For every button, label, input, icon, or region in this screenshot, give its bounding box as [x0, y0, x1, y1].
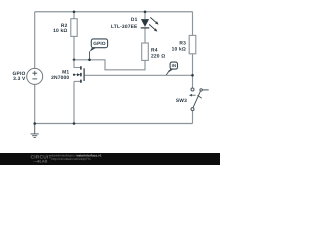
- emission arrow 1: [150, 17, 156, 22]
- footer watermark bar: [0, 153, 220, 165]
- junction R2 top rail: [73, 10, 76, 13]
- svg-text:D1: D1: [131, 17, 138, 23]
- voltage source V1 GPIO 3.3 V: [13, 68, 43, 84]
- body lead: [74, 74, 78, 76]
- body-source junction: [73, 74, 75, 76]
- emission arrow 2: [149, 24, 155, 29]
- svg-text:—■LAB: —■LAB: [34, 160, 48, 164]
- throw B terminal: [200, 89, 202, 91]
- terminal bottom: [191, 108, 194, 111]
- wire R3 top lead: [192, 12, 194, 36]
- junction IN node / R3 / SW3: [191, 74, 194, 77]
- wire R3 bottom lead: [192, 54, 194, 76]
- svg-text:M1: M1: [62, 70, 69, 76]
- wire R2 top lead: [73, 12, 75, 19]
- junction V1/ground/rail: [33, 122, 36, 125]
- node GPIO flag: [88, 39, 107, 61]
- svg-text:R4: R4: [151, 48, 158, 54]
- wire left rail: [34, 12, 36, 69]
- drain lead: [74, 60, 80, 68]
- wire IN node to SW3 top: [192, 75, 194, 88]
- switch SW3: [176, 88, 209, 111]
- wire D1 cathode to R4: [144, 28, 146, 43]
- svg-text:2N7000: 2N7000: [51, 75, 69, 81]
- svg-text:220 Ω: 220 Ω: [151, 53, 165, 59]
- svg-text:R3: R3: [179, 40, 186, 46]
- svg-text:GPIO: GPIO: [93, 41, 106, 46]
- source lead: [74, 80, 80, 82]
- svg-text:3.3 V: 3.3 V: [13, 76, 26, 82]
- transistor M1 2N7000: [51, 60, 84, 83]
- wire M1 source lead down: [73, 81, 75, 123]
- wire bottom ground rail: [35, 123, 193, 125]
- svg-text:SW3: SW3: [176, 98, 187, 104]
- wire R2 bottom lead: [73, 36, 75, 59]
- node IN flag: [166, 62, 177, 75]
- channel segments: [80, 66, 82, 83]
- resistor R3 10 kOhm: [172, 35, 196, 53]
- junction D1 top rail: [144, 10, 147, 13]
- lever: [193, 91, 201, 108]
- body arrow: [77, 73, 80, 76]
- resistor R4 220 Ohm: [142, 43, 166, 60]
- junction M1 source / ground rail: [73, 122, 76, 125]
- toggle tick: [198, 95, 202, 98]
- terminal top: [191, 88, 194, 91]
- svg-text:10 kΩ: 10 kΩ: [53, 28, 67, 34]
- LED D1 LTL-307EE: [111, 17, 159, 32]
- ground: [31, 124, 39, 138]
- wire V1 bottom lead: [34, 84, 36, 123]
- junction R2 bottom / drain node: [73, 59, 76, 62]
- throw B stub: [202, 89, 208, 91]
- svg-text:LTL-307EE: LTL-307EE: [111, 24, 138, 30]
- wire top rail: [35, 11, 193, 13]
- svg-text:IN: IN: [172, 63, 177, 68]
- svg-text:R2: R2: [61, 23, 68, 29]
- wire drain node step to R4: [74, 60, 145, 70]
- wire SW3 bottom lead: [192, 111, 194, 124]
- svg-text:10 kΩ: 10 kΩ: [172, 47, 186, 53]
- toggle arrow: [192, 94, 196, 96]
- wire D1 top lead: [144, 12, 146, 19]
- svg-text:http://circuitlab.com/c44p77x: http://circuitlab.com/c44p77x: [52, 157, 92, 161]
- wire M1 gate to IN node: [85, 74, 193, 76]
- gate bar: [83, 68, 85, 81]
- resistor R2 10 kOhm: [53, 19, 77, 37]
